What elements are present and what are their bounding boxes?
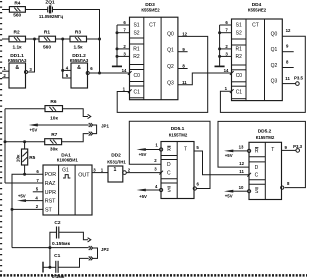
junction C1 left wire	[48, 266, 51, 269]
wire: DD4 Q3 to P3.5	[282, 83, 296, 85]
wire: DD1.1 output up to node A	[28, 39, 35, 72]
svg-text:R6: R6	[50, 99, 56, 105]
svg-text:UPR: UPR	[45, 190, 56, 196]
svg-text:D: D	[255, 165, 259, 171]
wire: UPR stub	[33, 191, 43, 193]
svg-text:RAZ: RAZ	[45, 181, 56, 187]
wire: R7 to JP1 bottom	[62, 134, 89, 142]
inverter DD2	[101, 152, 131, 182]
svg-text:10к: 10к	[16, 154, 22, 162]
svg-text:+5V: +5V	[18, 193, 26, 198]
svg-text:S1: S1	[133, 23, 139, 29]
svg-text:R1: R1	[235, 47, 242, 53]
open arrow JP2 top	[88, 238, 91, 242]
svg-text:1.5к: 1.5к	[73, 45, 83, 51]
resistor R2	[9, 29, 26, 50]
gate DD1.2	[66, 53, 93, 88]
svg-text:C2: C2	[54, 220, 60, 226]
wire: DD5.1 Q to DD5.2 C	[194, 151, 249, 175]
resistor R3	[70, 29, 87, 50]
wire: R3 to node C	[87, 38, 100, 40]
svg-text:R1: R1	[133, 47, 140, 53]
wire: DD4 Q0 to C1 loop	[220, 36, 305, 112]
svg-text:C1: C1	[133, 89, 140, 95]
wire: R4 to ZQ1	[25, 9, 47, 11]
wire: DA1 OUT to DD2	[92, 172, 108, 174]
wire: DD3 Q2 stub	[178, 68, 188, 70]
svg-text:+5V: +5V	[139, 152, 147, 157]
svg-text:C: C	[255, 172, 259, 178]
svg-text:Q2: Q2	[167, 64, 174, 70]
svg-text:К555ИЕ2: К555ИЕ2	[141, 8, 160, 13]
wire: ground bus to JP2	[12, 247, 89, 249]
svg-text:OUT: OUT	[78, 172, 90, 178]
ground symbol DD4	[215, 65, 225, 67]
+5V symbol JP1	[29, 124, 89, 133]
wire: ZQ1 right to corner, down to node C	[53, 10, 100, 74]
+5V symbol DD5.2 R	[224, 150, 248, 159]
svg-text:R: R	[167, 147, 171, 153]
svg-text:К531ЛН1: К531ЛН1	[107, 159, 126, 164]
svg-text:&: &	[77, 65, 81, 71]
junction DD4 R2	[218, 55, 221, 58]
wire: DD1.2 output to DD3 C0	[89, 72, 129, 74]
wire: R1 to R3	[56, 38, 71, 40]
svg-text:Q3: Q3	[271, 79, 278, 85]
ground bar C1	[42, 262, 44, 273]
svg-text:К555ЛА3: К555ЛА3	[70, 58, 89, 63]
svg-text:JP2: JP2	[101, 247, 109, 252]
junction rail R7 row	[4, 140, 7, 143]
left boundary dashed border	[0, 1, 2, 273]
wire: DD4 S/R inputs to ground	[218, 25, 231, 66]
svg-text:Q0: Q0	[167, 32, 174, 38]
wire: DD3 S/R inputs to ground	[116, 25, 130, 66]
svg-text:10к: 10к	[50, 116, 58, 122]
svg-text:RST: RST	[45, 199, 56, 205]
svg-text:560: 560	[43, 45, 51, 51]
svg-text:JP1: JP1	[101, 123, 109, 128]
junction DD3 R1	[116, 47, 119, 50]
dynamic input marks	[128, 71, 132, 75]
resistor R4	[9, 1, 25, 19]
timer DA1	[35, 153, 96, 215]
svg-text:R7: R7	[51, 132, 57, 138]
svg-text:Q1: Q1	[167, 48, 174, 54]
flip-flop DD5.2	[239, 128, 290, 199]
wire: left rail to R6	[5, 108, 45, 110]
resistor R6	[45, 99, 63, 121]
junction DD3 S2	[116, 31, 119, 34]
svg-text:G1: G1	[62, 168, 69, 174]
svg-text:12: 12	[286, 28, 291, 33]
svg-text:Q1: Q1	[271, 47, 278, 53]
svg-text:+5V: +5V	[29, 127, 37, 132]
gate DD1.1	[2, 53, 32, 88]
svg-text:14: 14	[224, 68, 229, 73]
wire: rail to R7	[5, 141, 45, 143]
svg-text:DD5.2: DD5.2	[258, 128, 272, 134]
counter DD4	[224, 2, 291, 100]
svg-text:S2: S2	[133, 30, 139, 36]
wire: DD5.1 D feedback loop	[129, 121, 210, 188]
open arrow JP1 top	[88, 114, 91, 118]
terminal P3.5	[294, 76, 304, 86]
crystal ZQ1	[39, 0, 64, 19]
node A junction	[33, 38, 36, 41]
node B junction	[61, 38, 64, 41]
svg-text:+5V: +5V	[225, 194, 233, 199]
svg-text:C0: C0	[236, 73, 243, 79]
svg-text:Q3: Q3	[167, 80, 174, 86]
svg-text:C1: C1	[236, 89, 243, 95]
wire: RAZ pin from rail	[5, 182, 43, 184]
svg-text:ZQ1: ZQ1	[45, 0, 55, 5]
svg-text:1.1к: 1.1к	[12, 45, 22, 51]
svg-text:&: &	[15, 65, 19, 71]
svg-text:12: 12	[182, 31, 187, 36]
svg-text:T: T	[184, 146, 187, 152]
wire: R6 to JP1 top arrow	[63, 109, 89, 117]
junction node C at DD3 C0 wire	[98, 72, 101, 75]
svg-text:C1: C1	[54, 253, 60, 259]
wire: ground bar to C1	[43, 266, 56, 268]
svg-text:ST: ST	[45, 207, 53, 213]
wire: DD2 out to DD5.1 C	[126, 172, 161, 174]
wire: top rail from left edge to R4	[2, 9, 9, 11]
wire: R2 to R1	[26, 38, 40, 40]
flip-flop DD5.1	[154, 126, 199, 199]
wire: C2 left down to ground bus	[50, 232, 57, 267]
svg-text:К555ЛА3: К555ЛА3	[8, 58, 27, 63]
svg-text:560: 560	[13, 12, 21, 18]
svg-text:11.0592МГц: 11.0592МГц	[39, 14, 64, 19]
+5V symbol RST	[17, 193, 43, 202]
svg-text:R2: R2	[14, 29, 20, 35]
terminal P3.3	[293, 144, 303, 152]
svg-text:C0: C0	[133, 73, 140, 79]
capacitor C2	[52, 220, 71, 247]
wire: DD5.2 Q to P3.3	[282, 149, 297, 151]
wire: DD3 Q1 stub	[178, 51, 188, 53]
resistor R7	[45, 132, 62, 152]
svg-text:К555ИЕ2: К555ИЕ2	[248, 8, 267, 13]
svg-text:0.155мк: 0.155мк	[52, 241, 71, 247]
wire: DD4 Q2 stub	[282, 67, 293, 69]
svg-text:D: D	[167, 162, 171, 168]
junction R5 top	[23, 140, 26, 143]
svg-text:30к: 30к	[50, 146, 58, 152]
svg-text:DD5.1: DD5.1	[171, 126, 185, 132]
svg-text:11: 11	[239, 169, 244, 174]
wire: POR pin	[12, 174, 43, 247]
ground symbol DD3	[112, 65, 122, 67]
svg-text:R2: R2	[133, 54, 140, 60]
svg-text:S2: S2	[236, 30, 242, 36]
counter DD3	[122, 2, 188, 100]
wire: C1 right to JP2 bottom	[58, 258, 89, 267]
svg-text:POR: POR	[44, 172, 56, 178]
svg-text:К155ТМ2: К155ТМ2	[256, 135, 275, 140]
svg-text:R2: R2	[235, 54, 242, 60]
capacitor C1	[52, 253, 65, 278]
svg-text:R3: R3	[75, 29, 81, 35]
svg-text:К1006ВИ1: К1006ВИ1	[57, 158, 79, 163]
wire: DD3 Q0 to C1 loop	[117, 36, 208, 112]
svg-text:Q2: Q2	[271, 63, 278, 69]
wire: node B down to DD1.2 inputs	[63, 39, 71, 78]
wire: R5 bottom to POR row	[24, 165, 26, 174]
svg-text:P3.3: P3.3	[293, 144, 303, 149]
resistor R5	[16, 149, 36, 165]
svg-text:R4: R4	[14, 1, 20, 7]
junction DD3 R2	[116, 55, 119, 58]
svg-text:R1: R1	[44, 29, 50, 35]
svg-text:R5: R5	[29, 155, 35, 161]
wire: DD3 Q3 to DD4 C0	[178, 73, 232, 85]
+5V symbol DD5.2 S	[224, 190, 248, 199]
svg-text:T: T	[271, 147, 274, 153]
svg-text:11: 11	[285, 76, 290, 81]
svg-text:13: 13	[239, 145, 244, 150]
svg-text:1: 1	[114, 167, 117, 173]
junction DD1.2 input pin4	[61, 69, 64, 72]
+5V symbol DD5.1 S	[137, 189, 160, 199]
svg-text:R: R	[255, 149, 259, 155]
node C junction	[98, 38, 101, 41]
+5V symbol DD5.1 R	[137, 148, 160, 157]
svg-text:+5V: +5V	[139, 194, 147, 199]
wire: DD5.2 D feedback loop	[218, 121, 305, 187]
bottom boundary dashed border	[0, 274, 307, 277]
svg-text:0.1мк: 0.1мк	[52, 274, 65, 278]
wire: C2 right to open arrow	[59, 232, 88, 240]
svg-text:К155ТМ2: К155ТМ2	[169, 133, 188, 138]
junction C2 leg at ground bus	[48, 246, 51, 249]
svg-text:14: 14	[122, 68, 127, 73]
wire: DD4 Q1 stub	[282, 51, 293, 53]
junction DD4 S2	[218, 31, 221, 34]
svg-text:C: C	[167, 170, 171, 176]
svg-text:11: 11	[182, 80, 187, 85]
svg-text:12: 12	[239, 161, 244, 166]
resistor R1	[39, 29, 56, 50]
jumper JP2	[89, 246, 110, 260]
junction R5 bottom at POR wire	[23, 173, 26, 176]
dynamic input marks	[230, 71, 234, 75]
svg-text:10: 10	[239, 185, 244, 190]
svg-text:+5V: +5V	[225, 153, 233, 158]
jumper JP1	[89, 123, 110, 136]
svg-text:CT: CT	[252, 23, 259, 29]
junction DD4 R1	[218, 47, 221, 50]
svg-text:S1: S1	[236, 23, 242, 29]
left +5V rail vertical	[4, 109, 6, 183]
wire: row2 left edge to R2	[2, 38, 9, 40]
svg-text:CT: CT	[149, 23, 156, 29]
junction ST wire	[11, 208, 14, 211]
svg-text:Q0: Q0	[271, 31, 278, 37]
svg-text:DD2: DD2	[111, 152, 121, 158]
svg-text:P3.5: P3.5	[294, 76, 304, 81]
wire: ST pin	[12, 208, 43, 210]
wire: R5 top to R7 row	[24, 142, 26, 149]
